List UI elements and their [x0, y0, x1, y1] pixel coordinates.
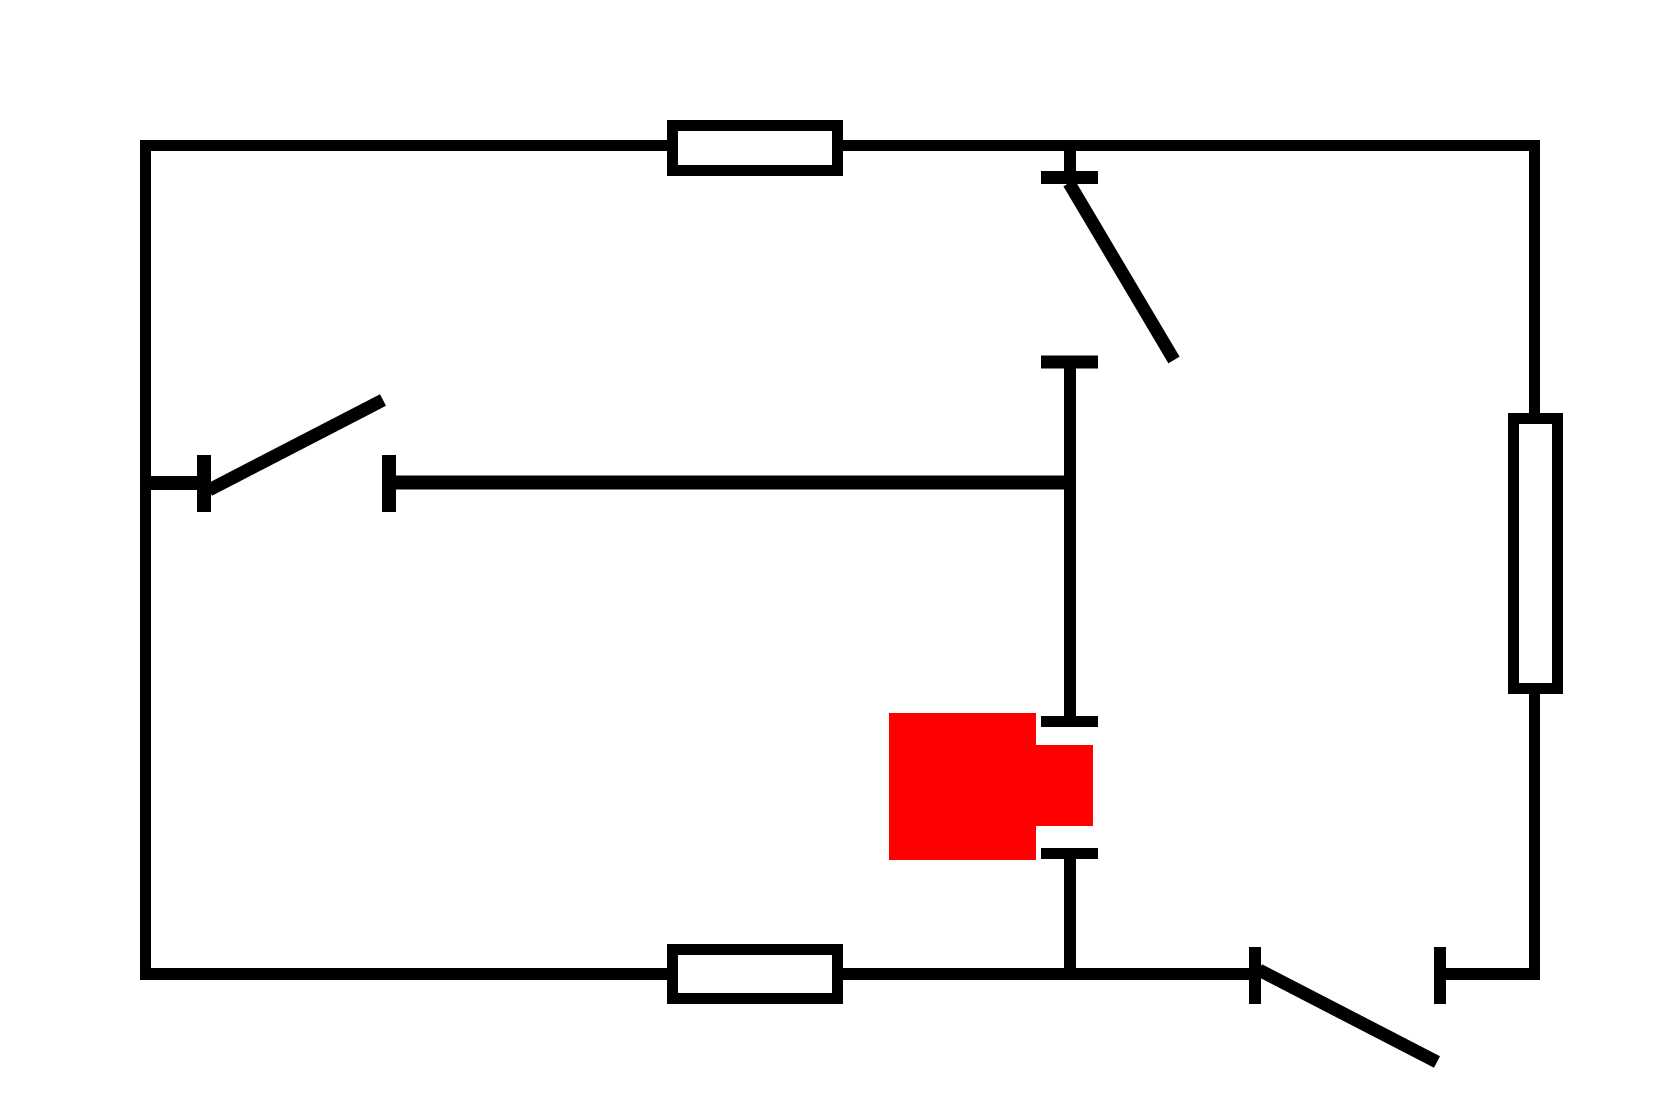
wire right side	[1529, 140, 1540, 980]
switch S1 (left, open) wire stub from left side	[145, 476, 205, 490]
resistor (right)	[1514, 419, 1558, 689]
switch S2 terminal 1	[1041, 171, 1098, 184]
switch S3 (bottom right, open) terminal 1	[1249, 947, 1261, 1004]
pushbutton top contact plate	[1041, 716, 1098, 727]
resistor (bottom)	[673, 950, 838, 999]
switch S1 terminal 1	[197, 455, 211, 512]
resistor (top)	[673, 126, 838, 171]
wire stub from pushbutton to bottom side	[1064, 854, 1076, 975]
switch S3 terminal 2	[1434, 947, 1446, 1004]
wire bottom left segment	[140, 968, 1255, 980]
switch S2 terminal 2	[1041, 356, 1098, 369]
wire bottom right segment	[1440, 968, 1540, 980]
wire top side	[140, 140, 1540, 151]
wire middle horizontal	[389, 476, 1076, 490]
switch S2 (top right, open) wire stub from top side	[1064, 146, 1076, 184]
switch S1 terminal 2	[382, 455, 396, 512]
pushbutton red button body	[889, 713, 1093, 860]
wire middle vertical	[1064, 362, 1076, 721]
switch S3 blade	[1259, 970, 1437, 1062]
pushbutton bottom contact plate	[1041, 848, 1098, 859]
wire left side	[140, 140, 151, 980]
switch S2 blade	[1069, 183, 1174, 360]
switch S1 blade	[209, 400, 383, 490]
